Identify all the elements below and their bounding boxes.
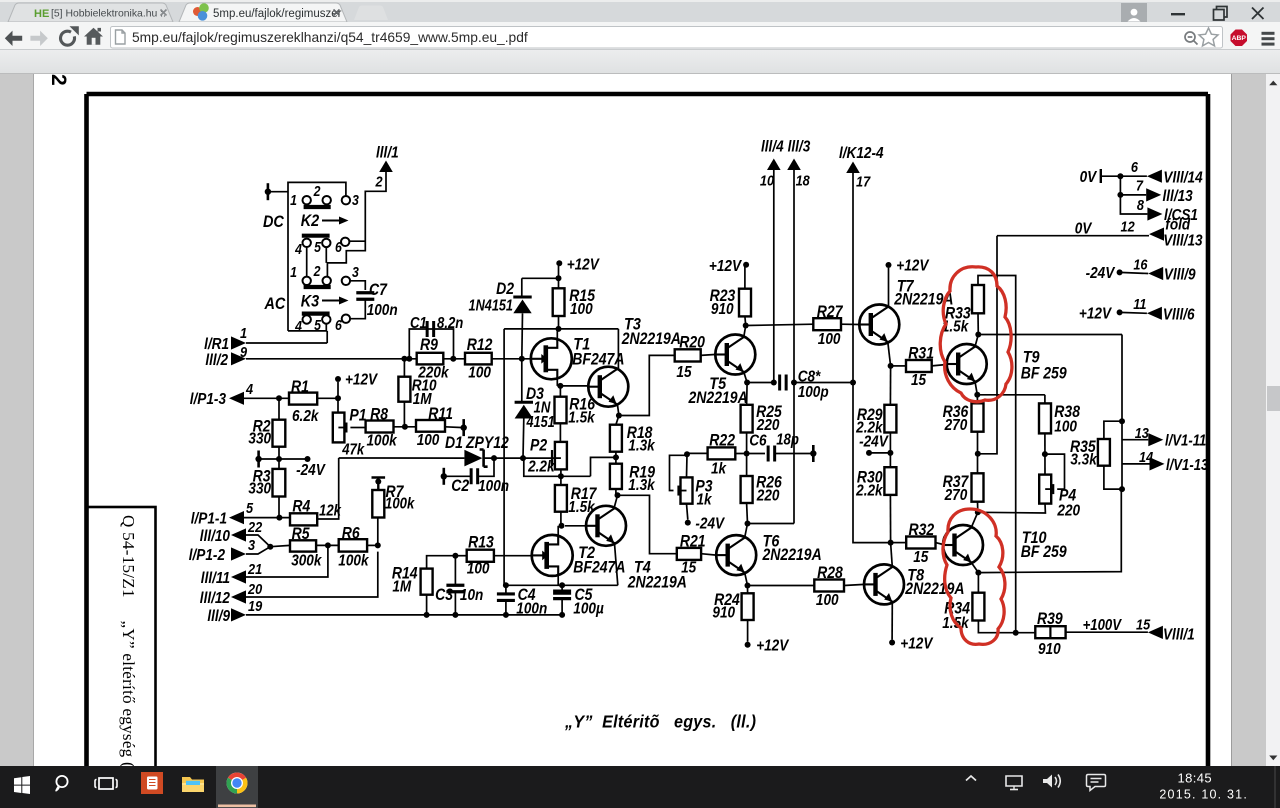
node R18-R19 bbox=[613, 454, 619, 460]
wire R10 top to III/2 row bbox=[403, 359, 405, 377]
title block box (left, vertical) bbox=[87, 507, 156, 769]
transistor T6 2N2219A bbox=[716, 535, 756, 575]
svg-text:AC: AC bbox=[264, 295, 286, 313]
capacitor C8 bbox=[780, 375, 787, 391]
node bracket III/10 I/P1-2 bbox=[267, 544, 273, 550]
browser chrome: tab bar bbox=[0, 0, 1280, 22]
transistor T8 2N2219A bbox=[864, 564, 904, 604]
wire R6 right node bbox=[367, 544, 378, 546]
svg-text:6.2k: 6.2k bbox=[292, 408, 319, 425]
node D3 bottom on D1 row bbox=[520, 455, 526, 461]
wire R22 left to P3 node bbox=[687, 452, 708, 454]
wire from K2 contact 6 to III/1 riser bbox=[349, 240, 365, 242]
relay K3 moving contact bar (top) bbox=[304, 285, 331, 289]
wire bracket to R5 bbox=[270, 545, 290, 546]
svg-text:R13: R13 bbox=[468, 533, 494, 551]
svg-text:Vlll/6: Vlll/6 bbox=[1163, 307, 1195, 324]
svg-text:100: 100 bbox=[818, 331, 841, 348]
wire -24V stub bbox=[869, 452, 890, 454]
resistor R11 bbox=[416, 420, 445, 432]
wire R1 right to +12V node bbox=[317, 397, 338, 399]
svg-text:+12V: +12V bbox=[345, 372, 378, 389]
svg-text:8: 8 bbox=[1137, 196, 1144, 213]
wire T5 collector row to R27 bbox=[746, 324, 814, 325]
svg-text:18: 18 bbox=[796, 171, 810, 188]
resistor R5 bbox=[290, 540, 316, 551]
svg-text:6: 6 bbox=[335, 317, 342, 333]
svg-text:18:45: 18:45 bbox=[1177, 771, 1212, 786]
red annotation circle around T10 and R34 bbox=[943, 509, 1005, 644]
wire K3 contact 5 to box bottom and I/R1 riser bbox=[288, 324, 326, 331]
svg-text:R11: R11 bbox=[428, 405, 453, 423]
wire I/P1-1 row bbox=[244, 517, 290, 519]
red annotation circle around R33 and T9 bbox=[940, 267, 1012, 402]
wire 13-14 feedback riser bbox=[1121, 335, 1123, 490]
wire R39 to VIII/1 bbox=[1066, 631, 1148, 633]
wire T9 collector row bbox=[978, 334, 1122, 336]
svg-text:1.3k: 1.3k bbox=[628, 477, 655, 494]
+12V supply (R23) bbox=[743, 262, 749, 268]
svg-text:2: 2 bbox=[313, 183, 321, 199]
svg-text:-24V: -24V bbox=[859, 433, 889, 450]
svg-text:20: 20 bbox=[247, 580, 262, 597]
svg-text:l/P1-2: l/P1-2 bbox=[189, 547, 226, 564]
svg-text:15: 15 bbox=[1136, 615, 1150, 632]
resistor R10 bbox=[398, 377, 410, 402]
browser chrome: toolbar bbox=[0, 22, 1280, 50]
wire D1 row (P1 bottom to P2 wiper) bbox=[339, 457, 465, 459]
wire +12V to P1 bbox=[337, 382, 339, 413]
svg-text:3.3k: 3.3k bbox=[1070, 452, 1097, 469]
svg-text:DC: DC bbox=[263, 213, 284, 231]
profile avatar button bbox=[1121, 3, 1147, 27]
active tab 5mp.eu bbox=[179, 3, 347, 22]
capacitor C5 (electrolytic) bbox=[553, 590, 571, 595]
wire +12V to VIII/6 bbox=[1120, 311, 1147, 314]
wire -24V to VIII/9 bbox=[1120, 272, 1149, 273]
resistor R9 bbox=[417, 353, 444, 365]
inactive tab Hobbielektronika bbox=[8, 3, 173, 22]
resistor R18 bbox=[610, 425, 622, 452]
svg-text:l/V1-11: l/V1-11 bbox=[1165, 433, 1206, 450]
svg-text:1.3k: 1.3k bbox=[628, 438, 655, 455]
wire P2 bottom / R17 top row bbox=[524, 458, 591, 476]
svg-text:270: 270 bbox=[944, 487, 968, 504]
relay K3 contact 3 bbox=[342, 277, 350, 285]
resistor R13 bbox=[467, 550, 494, 562]
wire 0V riser to R36-R37 node bbox=[980, 236, 998, 454]
terminal stub left of R2-R3 node bbox=[257, 451, 260, 468]
wire T10 emitter row bbox=[978, 489, 1121, 572]
svg-text:100: 100 bbox=[570, 301, 593, 318]
wire R25 top bbox=[746, 383, 749, 405]
-24V supply (R2 R3 node) bbox=[305, 456, 311, 462]
wire stub from K2 contact 5 bbox=[325, 247, 327, 263]
node R39 left / +100V riser bbox=[1013, 630, 1019, 636]
wire R5 to R6 bbox=[316, 544, 339, 546]
svg-text:„Y” Eltéritõ egys. (ll.): „Y” Eltéritõ egys. (ll.) bbox=[564, 712, 756, 732]
windows taskbar bbox=[0, 766, 1280, 808]
window minimize bbox=[1171, 13, 1185, 15]
+12V supply (R24) bbox=[745, 642, 751, 648]
wire R25 to R26 and C6 row bbox=[746, 433, 748, 477]
resistor R12 bbox=[465, 353, 492, 365]
wire R34 bottom to R39 node bbox=[978, 621, 1035, 633]
svg-text:6: 6 bbox=[335, 239, 342, 255]
svg-text:R4: R4 bbox=[292, 497, 310, 515]
wire R14 top to R13 node bbox=[427, 556, 456, 569]
svg-text:2: 2 bbox=[313, 263, 321, 279]
wire T6 emitter row to R28 bbox=[748, 585, 815, 587]
node R9-R12 bbox=[450, 356, 456, 362]
wire T3 collector bbox=[617, 329, 619, 371]
svg-text:föld: föld bbox=[1165, 217, 1191, 234]
svg-text:l/R1: l/R1 bbox=[204, 336, 229, 353]
svg-text:8.2n: 8.2n bbox=[437, 315, 464, 332]
svg-text:1M: 1M bbox=[392, 579, 411, 596]
wire R30 bottom to T8 collector node bbox=[889, 495, 891, 543]
svg-text:15: 15 bbox=[681, 560, 697, 577]
wire III/10 to bracket node bbox=[246, 535, 270, 547]
resistor R17 bbox=[555, 485, 567, 512]
svg-text:C6: C6 bbox=[749, 433, 767, 450]
svg-text:+12V: +12V bbox=[900, 636, 933, 653]
wire R35 bottom bbox=[1104, 466, 1122, 489]
resistor R39 bbox=[1035, 626, 1065, 638]
svg-text:220: 220 bbox=[1056, 503, 1080, 520]
capacitor C2 bbox=[471, 468, 478, 484]
svg-text:47k: 47k bbox=[341, 442, 365, 459]
zoom-out icon bbox=[1185, 32, 1195, 42]
wire R2-R3 node to -24V bbox=[259, 458, 308, 460]
transistor T3 2N2219A bbox=[588, 367, 628, 407]
menu hamburger bbox=[1262, 32, 1275, 35]
tray chevron bbox=[966, 776, 976, 781]
wire feedback row (R15 bottom / T3 collector) bbox=[504, 328, 618, 330]
svg-text:P1: P1 bbox=[349, 406, 366, 424]
wire R16 top bbox=[559, 386, 561, 397]
connector 13 I/V1-11 bbox=[1122, 439, 1148, 441]
wire R11 right to terminal bbox=[445, 426, 464, 429]
wire R34 top bbox=[977, 573, 979, 593]
svg-text:lll/12: lll/12 bbox=[200, 590, 231, 607]
svg-text:300k: 300k bbox=[291, 553, 322, 570]
resistor R29 bbox=[884, 405, 896, 433]
svg-text:2: 2 bbox=[375, 172, 383, 189]
svg-text:-24V: -24V bbox=[296, 462, 326, 479]
svg-text:Vlll/14: Vlll/14 bbox=[1163, 170, 1202, 187]
wire P3 bottom to -24V bbox=[687, 504, 688, 520]
wire III/12 row and riser to R6-R7 node bbox=[246, 552, 378, 597]
svg-text:lll/2: lll/2 bbox=[205, 352, 228, 369]
resistor R8 bbox=[366, 421, 394, 433]
svg-text:100k: 100k bbox=[367, 432, 398, 449]
svg-text:270: 270 bbox=[944, 417, 968, 434]
wire R24 bottom to +12V bbox=[747, 620, 749, 642]
tab 2 close bbox=[334, 10, 340, 16]
tab 1 close bbox=[161, 10, 167, 16]
wire III/2 row to R9 bbox=[246, 358, 417, 360]
terminal stub above R7 bbox=[372, 478, 386, 491]
wire T9 collector bbox=[975, 335, 978, 347]
svg-text:100: 100 bbox=[417, 432, 440, 449]
wire III/11 row and riser to R5-R6 node bbox=[246, 545, 328, 577]
wire T10 collector bbox=[971, 512, 978, 527]
wire T6 emitter bbox=[745, 573, 748, 586]
transistor T10 BF259 bbox=[943, 525, 983, 565]
svg-text:+12V: +12V bbox=[567, 256, 600, 273]
svg-text:16: 16 bbox=[1133, 255, 1147, 272]
svg-text:100n: 100n bbox=[516, 601, 547, 618]
svg-text:330: 330 bbox=[248, 481, 271, 498]
node R1 left bbox=[276, 395, 282, 401]
svg-text:100p: 100p bbox=[798, 384, 829, 401]
+12V supply (R15) bbox=[556, 260, 562, 266]
transistor T4 2N2219A bbox=[586, 506, 626, 546]
wire R24 top bbox=[747, 586, 749, 594]
svg-text:2015. 10. 31.: 2015. 10. 31. bbox=[1159, 788, 1248, 802]
wire R33 top to +100V riser bbox=[978, 276, 1016, 633]
wire P1 wiper to R8 bbox=[350, 427, 365, 429]
svg-text:C7: C7 bbox=[369, 281, 388, 299]
chrome logo bbox=[227, 773, 248, 794]
svg-text:BF 259: BF 259 bbox=[1021, 543, 1067, 561]
wire R14 bottom to ground row bbox=[426, 595, 428, 615]
resistor R36 bbox=[972, 403, 984, 431]
show desktop divider bbox=[1275, 766, 1276, 808]
wire R6-R7 riser bbox=[377, 518, 379, 546]
scrollbar up arrow bbox=[1269, 80, 1277, 85]
svg-text:3: 3 bbox=[248, 536, 255, 553]
svg-text:D1: D1 bbox=[445, 434, 463, 452]
potentiometer P3 bbox=[681, 477, 693, 503]
svg-text:100: 100 bbox=[1054, 419, 1077, 436]
svg-text:l/K12-4: l/K12-4 bbox=[839, 145, 884, 162]
scrollbar thumb bbox=[1267, 386, 1280, 411]
connector 14 I/V1-13 bbox=[1122, 463, 1150, 465]
wire R29 bottom to -24V node bbox=[889, 433, 891, 468]
svg-text:4: 4 bbox=[294, 241, 302, 257]
task view icon bbox=[99, 778, 113, 789]
pdf viewer top band bbox=[0, 50, 1280, 74]
svg-text:2: 2 bbox=[47, 74, 70, 86]
relay K2 contact 4 bbox=[303, 239, 311, 247]
svg-text:R27: R27 bbox=[817, 303, 844, 321]
wire T5 emitter bbox=[744, 372, 747, 383]
svg-text:lll/10: lll/10 bbox=[200, 528, 231, 545]
resistor R23 bbox=[739, 289, 751, 317]
wire R36 top bbox=[976, 395, 978, 404]
back button bbox=[5, 31, 22, 46]
svg-text:9: 9 bbox=[240, 343, 247, 360]
wire T1 source down bbox=[556, 378, 558, 386]
wire R15 bottom to feedback row bbox=[558, 316, 560, 329]
resistor R7 bbox=[372, 490, 384, 518]
transistor T7 2N2219A bbox=[859, 305, 899, 345]
svg-text:15: 15 bbox=[913, 549, 929, 566]
svg-text:D2: D2 bbox=[496, 280, 514, 298]
svg-text:lll/9: lll/9 bbox=[207, 608, 230, 625]
reload button bbox=[61, 31, 75, 45]
svg-text:330: 330 bbox=[248, 431, 271, 448]
wire T9 emitter row to R38 bbox=[977, 394, 1045, 396]
resistor R14 bbox=[421, 569, 433, 595]
resistor R20 bbox=[675, 349, 701, 361]
svg-text:R5: R5 bbox=[292, 525, 310, 543]
node R4 left bbox=[276, 515, 282, 521]
svg-text:BF247A: BF247A bbox=[573, 558, 625, 576]
window restore bbox=[1214, 10, 1225, 21]
resistor R37 bbox=[972, 473, 984, 501]
wire R19 bottom node bbox=[615, 489, 617, 495]
svg-text:5: 5 bbox=[246, 499, 253, 516]
wire I/K12-4 riser to T8 collector node bbox=[853, 173, 891, 543]
favicon 5mp molecule bbox=[193, 7, 202, 16]
capacitor C1 with loop over R9 bbox=[409, 329, 453, 359]
wire P2 wiper bar bbox=[551, 450, 553, 466]
wire R38 bottom to P4 bbox=[1044, 433, 1046, 474]
resistor R6 bbox=[339, 539, 367, 551]
svg-text:l/P1-3: l/P1-3 bbox=[190, 391, 227, 408]
wire R1 node down through R2 R3 bbox=[278, 398, 280, 419]
wire T5 emitter row to C8 bbox=[747, 382, 776, 384]
svg-text:+100V: +100V bbox=[1083, 617, 1123, 634]
svg-text:5: 5 bbox=[314, 239, 321, 255]
node C8 right on III/3 riser bbox=[791, 380, 797, 386]
terminal stub left of C2 bbox=[442, 468, 445, 485]
capacitor C4 bbox=[497, 592, 515, 595]
wire T7 emitter down bbox=[888, 342, 891, 366]
wire R36 bottom R37 top bbox=[977, 432, 979, 474]
relay K3 contact 5 bbox=[322, 315, 330, 323]
wire from K2 contact 4 down to K3 contact 1 bbox=[306, 247, 308, 276]
wire R20 branch from T3 emitter node bbox=[619, 355, 675, 415]
svg-text:R12: R12 bbox=[467, 336, 493, 354]
wire T10 collector row to P4 bottom bbox=[978, 504, 1046, 513]
svg-text:2.2k: 2.2k bbox=[855, 483, 883, 500]
svg-text:220: 220 bbox=[756, 488, 780, 505]
new tab button bbox=[354, 6, 388, 21]
resistor R19 bbox=[610, 464, 622, 489]
wire III/9 ground row bbox=[246, 614, 562, 616]
resistor R35 bbox=[1098, 439, 1110, 466]
svg-text:BF247A: BF247A bbox=[572, 350, 624, 368]
wire T3 emitter to R18 bbox=[616, 416, 619, 425]
wire R13 left node bbox=[455, 555, 466, 557]
browser scrollbar bbox=[1266, 74, 1280, 767]
svg-text:910: 910 bbox=[711, 301, 734, 318]
resistor R28 bbox=[814, 580, 844, 592]
svg-text:1.5k: 1.5k bbox=[568, 410, 595, 427]
wire 0V fold line bbox=[997, 235, 1149, 237]
wire T9 emitter bbox=[975, 382, 977, 395]
wire R38 top bbox=[1044, 395, 1046, 404]
wire R21 to T6 base bbox=[701, 554, 716, 555]
wire diode chain D2 vertical bbox=[521, 278, 523, 297]
svg-text:100k: 100k bbox=[338, 553, 369, 570]
wire R13 right to T2 gate bbox=[494, 555, 532, 557]
tray speaker icon bbox=[1043, 775, 1052, 788]
wire P3 top bbox=[686, 454, 689, 477]
relay K2 contact 1 bbox=[303, 196, 311, 204]
connector III/1 arrow bbox=[379, 161, 393, 173]
wire T10 emitter bbox=[971, 563, 978, 573]
wire C3 stems bbox=[454, 556, 456, 586]
svg-text:Q 54-15/Z1 „Y” eltérítő eg: Q 54-15/Z1 „Y” eltérítő egység (l bbox=[119, 515, 138, 773]
svg-text:1M: 1M bbox=[413, 391, 432, 408]
relay K2 enclosure lines bbox=[288, 182, 346, 331]
svg-text:1N4151: 1N4151 bbox=[469, 297, 514, 314]
wire T6 collector row to III/3 riser bbox=[748, 523, 795, 525]
svg-text:1: 1 bbox=[290, 264, 297, 280]
svg-text:1k: 1k bbox=[711, 461, 727, 478]
wire T1 drain up bbox=[556, 329, 558, 340]
resistor R31 bbox=[906, 360, 932, 372]
svg-text:4151: 4151 bbox=[526, 414, 555, 431]
svg-text:21: 21 bbox=[247, 560, 262, 577]
tray notification icon bbox=[1087, 775, 1106, 791]
+12V supply (T8) bbox=[889, 640, 895, 646]
wire R12 to T1 gate bbox=[492, 358, 531, 360]
svg-text:3: 3 bbox=[352, 192, 359, 208]
wire T4 collector to R19 bottom bbox=[615, 495, 618, 506]
resistor R16 bbox=[555, 397, 567, 424]
omnibox bbox=[111, 27, 1223, 49]
svg-text:Vlll/13: Vlll/13 bbox=[1163, 233, 1203, 250]
wire feedback vertical to C4 bbox=[503, 329, 505, 585]
wire source row C4 to T4 emitter bbox=[504, 584, 618, 586]
svg-text:+12V: +12V bbox=[756, 638, 789, 655]
wire R16 bottom to P2 bbox=[559, 423, 561, 442]
svg-text:R21: R21 bbox=[680, 532, 706, 550]
wire row to R18-R19 node bbox=[591, 457, 619, 476]
relay K3 moving contact bar (bottom) bbox=[302, 312, 330, 316]
svg-text:10: 10 bbox=[760, 171, 774, 188]
svg-text:15: 15 bbox=[676, 364, 692, 381]
start button bbox=[14, 776, 30, 794]
wire T1 source to T3 base bbox=[557, 385, 589, 387]
resistor R30 bbox=[884, 467, 896, 495]
svg-text:100n: 100n bbox=[478, 478, 509, 495]
svg-text:100: 100 bbox=[467, 561, 490, 578]
wire T2 drain up to T4 base node bbox=[557, 526, 559, 536]
resistor R33 bbox=[972, 285, 984, 313]
resistor R38 bbox=[1039, 403, 1051, 433]
svg-text:C3: C3 bbox=[435, 586, 453, 604]
svg-text:1: 1 bbox=[290, 192, 297, 208]
svg-text:100µ: 100µ bbox=[573, 601, 604, 618]
svg-text:10n: 10n bbox=[460, 587, 483, 604]
svg-text:R1: R1 bbox=[291, 378, 309, 396]
resistor R25 bbox=[741, 405, 753, 433]
svg-text:R32: R32 bbox=[909, 521, 935, 539]
svg-text:BF 259: BF 259 bbox=[1021, 364, 1067, 382]
wire P3 wiper loop to top node bbox=[670, 455, 688, 490]
wire R27 to T7 base bbox=[841, 323, 859, 325]
transistor T9 BF259 bbox=[947, 344, 987, 384]
svg-text:l/V1-13: l/V1-13 bbox=[1166, 457, 1208, 474]
+12V supply (T7) bbox=[886, 262, 892, 268]
terminal stub (relay input) bbox=[267, 183, 270, 200]
svg-text:K3: K3 bbox=[301, 292, 320, 310]
wire C2 loop bbox=[444, 475, 471, 477]
wire R23 bottom to T5 collector node bbox=[744, 316, 747, 325]
svg-text:100: 100 bbox=[816, 592, 839, 609]
svg-text:+12V: +12V bbox=[709, 258, 742, 275]
resistor R27 bbox=[813, 318, 841, 330]
svg-text:2N2219A: 2N2219A bbox=[627, 573, 687, 591]
wire P4 wiper loop bbox=[1045, 454, 1065, 489]
